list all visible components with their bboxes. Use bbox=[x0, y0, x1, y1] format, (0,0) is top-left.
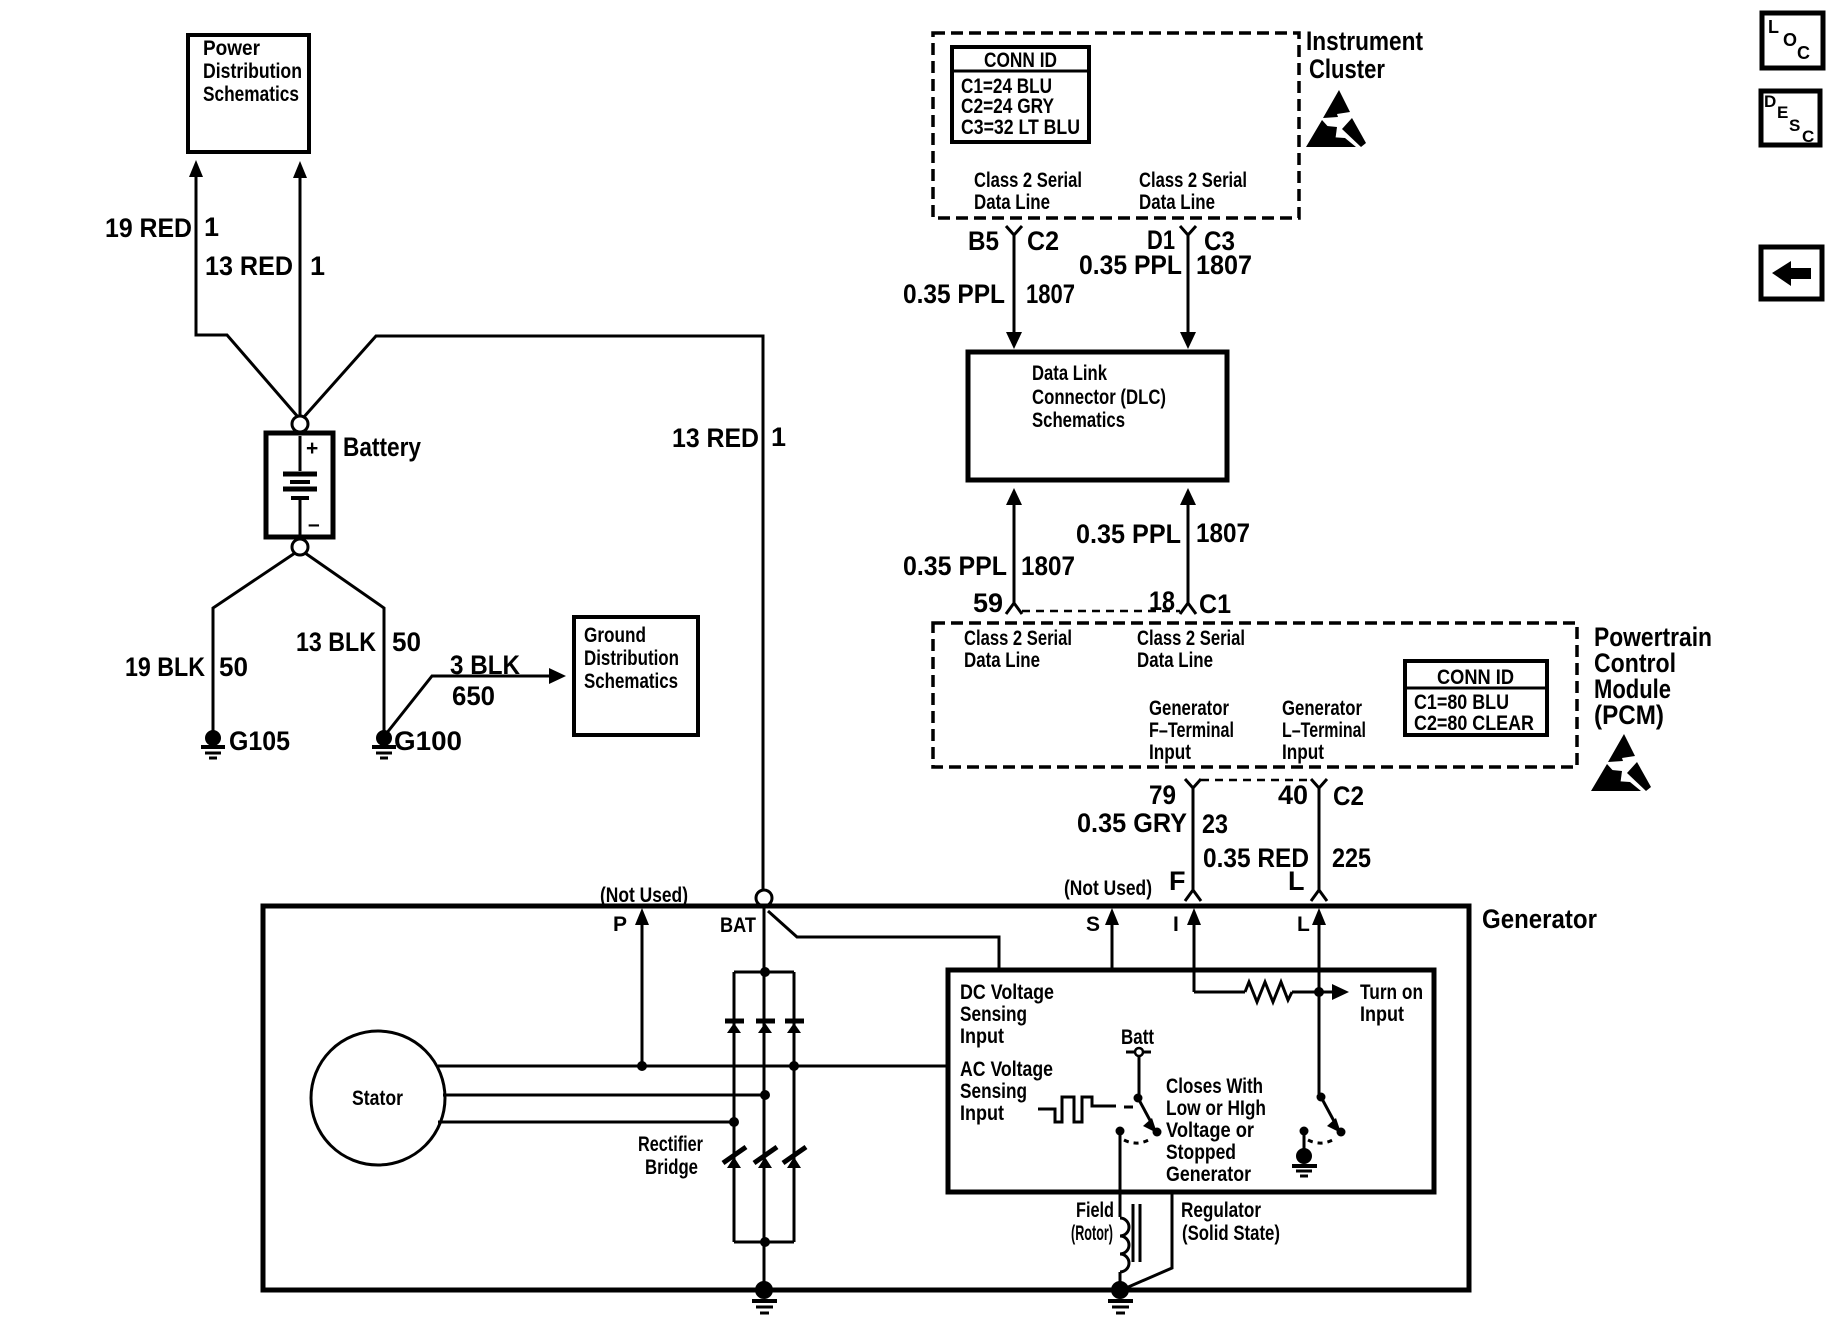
ground distribution schematics box bbox=[574, 617, 698, 735]
instrument cluster CONN ID table bbox=[952, 47, 1089, 142]
wire PPL from IC to DLC (left) bbox=[1006, 235, 1022, 349]
wire 3 BLK 650 to ground distribution box bbox=[386, 668, 566, 734]
svg-text:C: C bbox=[1797, 43, 1810, 63]
label Closes With Low or High Voltage or Stopped Generator bbox=[1166, 1075, 1266, 1186]
svg-text:1807: 1807 bbox=[1196, 518, 1250, 548]
svg-text:13 RED: 13 RED bbox=[205, 251, 293, 281]
svg-text:0.35 PPL: 0.35 PPL bbox=[903, 279, 1005, 309]
BAT wire down through generator bbox=[763, 906, 766, 1288]
svg-text:S: S bbox=[1086, 913, 1100, 936]
junction node top phase at diode leg bbox=[789, 1061, 799, 1071]
svg-text:0.35 PPL: 0.35 PPL bbox=[1076, 519, 1181, 549]
svg-text:C: C bbox=[1802, 127, 1814, 146]
wire 19 RED arrow to power distribution box bbox=[189, 160, 298, 417]
wire from battery node to BAT terminal (13 RED right) bbox=[303, 336, 763, 890]
connector fork 40 bbox=[1311, 779, 1327, 788]
wire battery to G105 bbox=[213, 553, 295, 733]
svg-text:1807: 1807 bbox=[1196, 250, 1252, 280]
ground G100 bbox=[372, 730, 396, 758]
ground at L switch bbox=[1292, 1134, 1317, 1176]
label Regulator (Solid State) bbox=[1181, 1199, 1280, 1245]
svg-text:Class 2 Serial: Class 2 Serial bbox=[1137, 627, 1245, 650]
svg-text:–: – bbox=[308, 513, 320, 536]
svg-text:Battery: Battery bbox=[343, 432, 421, 462]
rectifier bridge frame bbox=[734, 967, 794, 1247]
label 0.35 PPL 1807 (lower left) bbox=[903, 551, 1075, 581]
svg-text:I: I bbox=[1173, 913, 1179, 936]
svg-text:L: L bbox=[1288, 866, 1305, 896]
label 19 RED 1 bbox=[105, 212, 219, 243]
svg-text:Input: Input bbox=[960, 1102, 1004, 1125]
label 0.35 RED 225 bbox=[1203, 843, 1371, 873]
svg-text:(Rotor): (Rotor) bbox=[1071, 1222, 1113, 1245]
svg-text:Schematics: Schematics bbox=[203, 83, 299, 106]
svg-text:B5: B5 bbox=[968, 226, 999, 256]
svg-text:Class 2 Serial: Class 2 Serial bbox=[974, 169, 1082, 192]
label 0.35 GRY 23 bbox=[1077, 808, 1228, 839]
L switch bbox=[1300, 1093, 1346, 1144]
label Class 2 Serial Data Line (PCM left) bbox=[964, 627, 1072, 672]
label 0.35 PPL 1807 (upper left) bbox=[903, 279, 1075, 309]
I arrow to F terminal bbox=[1187, 908, 1201, 992]
svg-text:Class 2 Serial: Class 2 Serial bbox=[1139, 169, 1247, 192]
stator circle bbox=[311, 1031, 445, 1165]
stator phase wire top bbox=[438, 1065, 947, 1068]
svg-text:0.35 GRY: 0.35 GRY bbox=[1077, 808, 1187, 838]
label DC Voltage Sensing Input bbox=[960, 981, 1054, 1048]
node at BAT terminal bbox=[756, 890, 772, 906]
svg-text:L: L bbox=[1768, 17, 1779, 37]
svg-text:Rectifier: Rectifier bbox=[638, 1133, 703, 1156]
P arrow (not used) bbox=[635, 908, 649, 1071]
label Generator F-Terminal Input bbox=[1149, 697, 1234, 764]
label Generator L-Terminal Input bbox=[1282, 697, 1366, 764]
back arrow icon box bbox=[1761, 247, 1822, 299]
svg-text:S: S bbox=[1789, 116, 1800, 135]
svg-text:3 BLK: 3 BLK bbox=[450, 650, 520, 680]
svg-text:C2=24 GRY: C2=24 GRY bbox=[961, 95, 1054, 118]
svg-text:Closes With: Closes With bbox=[1166, 1075, 1263, 1098]
GENERATOR-SECTION bbox=[263, 884, 1597, 1313]
data link connector DLC box bbox=[968, 352, 1227, 480]
wire RED L-terminal bbox=[1311, 788, 1327, 901]
ground at generator case (BAT line) bbox=[752, 1281, 777, 1313]
svg-text:E: E bbox=[1777, 103, 1788, 122]
powertrain control module dashed box bbox=[933, 623, 1577, 767]
MIDDLE-SECTION bbox=[903, 26, 1712, 901]
batt switch bbox=[1116, 1094, 1162, 1144]
LEFT-SECTION bbox=[105, 35, 786, 890]
instrument cluster dashed box bbox=[933, 33, 1299, 218]
svg-text:C1=80 BLU: C1=80 BLU bbox=[1414, 691, 1509, 714]
svg-text:Schematics: Schematics bbox=[584, 670, 678, 693]
L arrow to L terminal bbox=[1312, 908, 1326, 1094]
svg-text:Data Line: Data Line bbox=[974, 191, 1050, 214]
svg-text:AC Voltage: AC Voltage bbox=[960, 1058, 1053, 1081]
DESC icon box bbox=[1761, 91, 1820, 146]
label Class 2 Serial Data Line (PCM right) bbox=[1137, 627, 1245, 672]
label AC Voltage Sensing Input bbox=[960, 1058, 1053, 1125]
diode top right bbox=[785, 1021, 804, 1033]
svg-text:1: 1 bbox=[771, 422, 786, 452]
svg-text:1: 1 bbox=[204, 212, 219, 242]
svg-text:19 RED: 19 RED bbox=[105, 213, 192, 243]
label 0.35 PPL 1807 (lower right) bbox=[1076, 518, 1250, 549]
svg-text:Data Line: Data Line bbox=[964, 649, 1040, 672]
field coil bbox=[1120, 1204, 1140, 1272]
svg-text:C2: C2 bbox=[1333, 781, 1364, 811]
generator box bbox=[263, 906, 1469, 1290]
svg-text:C2=80 CLEAR: C2=80 CLEAR bbox=[1414, 712, 1534, 735]
svg-text:F–Terminal: F–Terminal bbox=[1149, 719, 1234, 742]
svg-text:1: 1 bbox=[310, 251, 325, 281]
junction node middle phase bbox=[760, 1090, 770, 1100]
svg-text:Instrument: Instrument bbox=[1306, 26, 1423, 56]
svg-text:0.35 PPL: 0.35 PPL bbox=[903, 551, 1007, 581]
PCM CONN ID table bbox=[1405, 661, 1547, 735]
svg-text:Generator: Generator bbox=[1149, 697, 1229, 720]
ICONS-SECTION bbox=[1761, 13, 1823, 299]
svg-text:Connector (DLC): Connector (DLC) bbox=[1032, 386, 1166, 409]
svg-text:Regulator: Regulator bbox=[1181, 1199, 1261, 1222]
connector fork D1-C3 bbox=[1180, 226, 1196, 235]
svg-text:BAT: BAT bbox=[720, 914, 756, 937]
S arrow (not used) bbox=[1105, 908, 1119, 970]
diode top middle bbox=[756, 1021, 775, 1033]
svg-text:+: + bbox=[306, 437, 318, 460]
svg-text:Data Line: Data Line bbox=[1139, 191, 1215, 214]
ground G105 bbox=[201, 730, 225, 758]
junction node bottom phase bbox=[729, 1117, 739, 1127]
connector fork 79 bbox=[1185, 779, 1201, 788]
battery bbox=[266, 433, 333, 537]
svg-text:L–Terminal: L–Terminal bbox=[1282, 719, 1366, 742]
svg-text:1807: 1807 bbox=[1021, 551, 1075, 581]
svg-text:(Not Used): (Not Used) bbox=[1064, 877, 1152, 900]
svg-text:Generator: Generator bbox=[1482, 904, 1597, 934]
svg-text:Cluster: Cluster bbox=[1309, 54, 1385, 84]
diode bottom right with slash bbox=[783, 1147, 806, 1168]
svg-text:Input: Input bbox=[1149, 741, 1191, 764]
svg-text:Bridge: Bridge bbox=[645, 1156, 698, 1179]
svg-text:13 RED: 13 RED bbox=[672, 423, 759, 453]
wire PPL from PCM to DLC (left) bbox=[1006, 488, 1022, 614]
svg-text:(Not Used): (Not Used) bbox=[600, 884, 688, 907]
connector fork B5-C2 bbox=[1006, 226, 1022, 235]
svg-text:19 BLK: 19 BLK bbox=[125, 652, 205, 682]
wire battery to G100 bbox=[305, 553, 384, 733]
svg-text:Ground: Ground bbox=[584, 624, 646, 647]
svg-text:Sensing: Sensing bbox=[960, 1003, 1027, 1026]
svg-text:Low or HIgh: Low or HIgh bbox=[1166, 1097, 1266, 1120]
svg-text:DC Voltage: DC Voltage bbox=[960, 981, 1054, 1004]
label 13 RED 1 (right) bbox=[672, 422, 786, 453]
svg-text:C3=32 LT BLU: C3=32 LT BLU bbox=[961, 116, 1080, 139]
ESD symbol (instrument cluster) bbox=[1306, 90, 1366, 147]
svg-text:13 BLK: 13 BLK bbox=[296, 627, 376, 657]
svg-text:40: 40 bbox=[1278, 780, 1308, 810]
label Turn on Input bbox=[1360, 981, 1423, 1026]
dash link to batt switch bbox=[1124, 1106, 1133, 1109]
power distribution schematics box bbox=[188, 35, 309, 152]
LOC icon box bbox=[1762, 13, 1823, 68]
svg-text:Data Link: Data Link bbox=[1032, 362, 1107, 385]
svg-text:C2: C2 bbox=[1027, 226, 1059, 256]
svg-text:Batt: Batt bbox=[1121, 1026, 1154, 1049]
svg-text:Schematics: Schematics bbox=[1032, 409, 1125, 432]
svg-text:Generator: Generator bbox=[1166, 1163, 1251, 1186]
svg-text:Generator: Generator bbox=[1282, 697, 1362, 720]
label Instrument Cluster bbox=[1306, 26, 1423, 84]
svg-text:Voltage or: Voltage or bbox=[1166, 1119, 1254, 1142]
dashed connector line PCM C2 bbox=[1201, 779, 1311, 782]
svg-text:50: 50 bbox=[392, 627, 421, 657]
svg-text:O: O bbox=[1783, 30, 1797, 50]
field wire from batt switch bbox=[1119, 1134, 1122, 1217]
svg-text:50: 50 bbox=[219, 652, 248, 682]
svg-text:Distribution: Distribution bbox=[203, 60, 302, 83]
svg-text:Sensing: Sensing bbox=[960, 1080, 1027, 1103]
svg-text:G100: G100 bbox=[394, 726, 462, 756]
svg-text:Stopped: Stopped bbox=[1166, 1141, 1236, 1164]
svg-text:0.35 PPL: 0.35 PPL bbox=[1079, 250, 1182, 280]
ground at field bbox=[1108, 1281, 1133, 1313]
svg-text:Distribution: Distribution bbox=[584, 647, 679, 670]
label 13 RED 1 bbox=[205, 251, 325, 281]
field ground wire bbox=[1119, 1272, 1122, 1288]
svg-text:Field: Field bbox=[1076, 1199, 1114, 1222]
node at battery negative bbox=[292, 539, 308, 555]
svg-text:Data Line: Data Line bbox=[1137, 649, 1213, 672]
svg-text:F: F bbox=[1169, 866, 1186, 896]
Batt terminal bbox=[1126, 1048, 1151, 1095]
svg-text:C1: C1 bbox=[1199, 589, 1231, 619]
svg-text:23: 23 bbox=[1202, 809, 1228, 839]
label Class 2 Serial Data Line (IC right) bbox=[1139, 169, 1247, 214]
regulator box bbox=[948, 970, 1434, 1192]
wire BAT to regulator DC sensing bbox=[768, 911, 999, 968]
label Class 2 Serial Data Line (IC left) bbox=[974, 169, 1082, 214]
svg-text:Power: Power bbox=[203, 37, 260, 60]
wire 13 RED arrow from battery to power distribution box bbox=[293, 161, 307, 416]
square wave symbol bbox=[1038, 1097, 1116, 1122]
label Field (Rotor) bbox=[1071, 1199, 1114, 1245]
diode top left bbox=[725, 1021, 744, 1033]
svg-text:(Solid State): (Solid State) bbox=[1182, 1222, 1280, 1245]
svg-text:Input: Input bbox=[960, 1025, 1004, 1048]
label 19 BLK 50 bbox=[125, 652, 248, 682]
dashed connector line PCM C1 bbox=[1022, 610, 1180, 613]
resistor wire from I line to turn on input bbox=[1194, 982, 1349, 1002]
wire GRY F-terminal bbox=[1185, 788, 1201, 901]
svg-text:59: 59 bbox=[973, 588, 1003, 618]
svg-text:P: P bbox=[613, 913, 627, 936]
svg-text:650: 650 bbox=[452, 681, 495, 711]
svg-text:Class 2 Serial: Class 2 Serial bbox=[964, 627, 1072, 650]
label Rectifier Bridge bbox=[638, 1133, 703, 1179]
label 13 BLK 50 bbox=[296, 627, 421, 657]
label Powertrain Control Module (PCM) bbox=[1594, 622, 1712, 730]
svg-text:G105: G105 bbox=[229, 726, 290, 756]
svg-text:1807: 1807 bbox=[1026, 279, 1075, 309]
svg-text:CONN ID: CONN ID bbox=[1437, 666, 1514, 689]
svg-text:Turn on: Turn on bbox=[1360, 981, 1423, 1004]
svg-text:(PCM): (PCM) bbox=[1594, 700, 1664, 730]
svg-text:L: L bbox=[1297, 913, 1310, 936]
svg-text:Stator: Stator bbox=[352, 1087, 403, 1110]
diode bottom left with slash bbox=[723, 1147, 746, 1168]
svg-text:79: 79 bbox=[1149, 780, 1176, 810]
wire PPL from PCM to DLC (right) bbox=[1180, 488, 1196, 614]
svg-text:D: D bbox=[1764, 92, 1776, 111]
svg-text:Input: Input bbox=[1282, 741, 1324, 764]
regulator ground link wire bbox=[1126, 1192, 1172, 1288]
ESD symbol (PCM) bbox=[1591, 734, 1651, 791]
svg-text:Input: Input bbox=[1360, 1003, 1404, 1026]
diode bottom middle with slash bbox=[754, 1147, 777, 1168]
label 0.35 PPL 1807 (upper right) bbox=[1079, 250, 1252, 280]
svg-text:CONN ID: CONN ID bbox=[984, 49, 1057, 72]
wire PPL from IC to DLC (right) bbox=[1180, 235, 1196, 349]
svg-text:18: 18 bbox=[1149, 586, 1175, 616]
stator phase wire bottom bbox=[438, 1121, 734, 1124]
stator phase wire middle bbox=[443, 1094, 765, 1097]
node at battery positive bbox=[292, 416, 308, 432]
svg-text:225: 225 bbox=[1332, 843, 1371, 873]
